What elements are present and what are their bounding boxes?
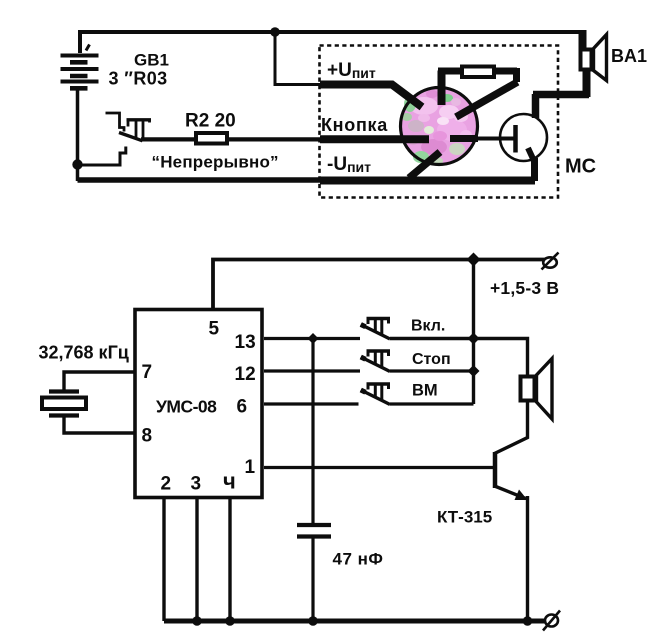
node junction emitter/rail: [523, 616, 533, 626]
svg-text:1: 1: [245, 457, 256, 478]
svg-text:32,768 кГц: 32,768 кГц: [39, 343, 129, 363]
wire -Upit branch diagonal into blob: [409, 152, 440, 178]
transistor of module MC: [450, 94, 547, 181]
svg-text:2: 2: [161, 474, 172, 495]
wire pin 6 row: [264, 402, 359, 405]
svg-text:Кнопка: Кнопка: [321, 115, 388, 135]
svg-text:8: 8: [142, 426, 153, 447]
wire top supply rail of bottom circuit: [213, 260, 545, 309]
wire pin 4 drop: [228, 499, 231, 621]
svg-text:“Непрерывно”: “Непрерывно”: [152, 153, 279, 172]
node junction pin4/rail: [225, 616, 235, 626]
resistor R2 20: [185, 111, 236, 144]
svg-text:BA1: BA1: [611, 46, 647, 66]
node junction capacitor/rail: [308, 616, 318, 626]
switch SA1 "Nepreryvno" continuous-mode switch: [77, 113, 279, 172]
wire capacitor branch: [311, 339, 314, 524]
node junction on top rail feeding +Upit: [270, 27, 280, 37]
capacitor 47 nF: [297, 525, 383, 621]
wire top rail from battery GB1 plus to speaker BA1: [80, 32, 582, 53]
svg-text:12: 12: [235, 364, 256, 385]
svg-text:13: 13: [235, 332, 256, 353]
wire Knopka thick segment into blob: [320, 135, 429, 143]
svg-text:+Uпит: +Uпит: [327, 60, 376, 81]
wire speaker BA1 connections: [533, 30, 589, 97]
speaker (dynamic head) of bottom circuit: [521, 359, 553, 420]
svg-text:ВМ: ВМ: [412, 382, 438, 400]
svg-text:3: 3: [191, 474, 202, 495]
wire +Upit feed drop from top rail: [275, 32, 320, 85]
wire pin 2 drop: [162, 499, 165, 621]
wire pin 1 row to transistor base: [264, 466, 493, 469]
svg-text:ч: ч: [223, 469, 236, 494]
svg-text:-Uпит: -Uпит: [327, 154, 371, 175]
wire +Upit thick segment into blob: [320, 85, 422, 108]
wire bottom ground rail: [164, 619, 546, 624]
node junction bus/Stop: [468, 365, 480, 377]
node battery junction dot: [72, 159, 82, 169]
button Vkl: [361, 318, 446, 340]
button VM: [361, 382, 438, 405]
node junction top rail: [467, 253, 481, 267]
wire bottom rail of top circuit (-Upit return): [78, 177, 321, 183]
button Stop: [361, 351, 451, 372]
wire switch to resistor R2: [141, 137, 196, 141]
svg-text:КТ-315: КТ-315: [437, 508, 492, 527]
wire -Upit thick rail inside module: [320, 177, 535, 185]
svg-text:5: 5: [209, 319, 220, 340]
wire VM row to bus: [390, 402, 474, 405]
transistor KT-315: [437, 452, 528, 621]
svg-text:Вкл.: Вкл.: [411, 318, 445, 335]
wire speaker to transistor collector: [495, 402, 528, 454]
speaker BA1: [581, 35, 648, 81]
svg-text:МС: МС: [565, 156, 596, 178]
IC UMS-08: [135, 310, 262, 498]
svg-text:УМС-08: УМС-08: [156, 397, 217, 417]
node junction pin3/rail: [192, 616, 202, 626]
chip-on-board blob (music chip die): [401, 88, 478, 166]
wire pin 3 drop: [195, 499, 198, 621]
svg-text:R2 20: R2 20: [185, 111, 236, 132]
resistor (chip) top loop in module: [438, 67, 518, 118]
wire Vkl row to speaker drop: [390, 339, 528, 377]
svg-text:6: 6: [237, 397, 248, 418]
dashed module boundary MC: [320, 46, 559, 198]
battery GB1: [61, 45, 169, 182]
svg-text:47 нФ: 47 нФ: [333, 550, 384, 569]
wire Stop row to bus: [390, 369, 474, 372]
node junction bus/Vkl: [468, 333, 480, 345]
wire vertical bus x=473: [472, 260, 475, 405]
svg-text:GB1: GB1: [134, 51, 169, 70]
svg-text:+1,5-3 В: +1,5-3 В: [490, 278, 559, 298]
svg-text:7: 7: [142, 362, 153, 383]
terminal ground bottom right: [543, 611, 560, 631]
terminal +1,5-3 V: [490, 253, 559, 299]
node junction pin13/capacitor: [308, 333, 319, 344]
svg-text:3 ″R03: 3 ″R03: [109, 69, 168, 89]
wire pin 12 row: [264, 369, 360, 372]
wire R2 to module (Knopka line): [227, 137, 320, 141]
wire pin 13 row: [264, 337, 360, 340]
svg-text:Стоп: Стоп: [412, 351, 451, 368]
crystal resonator 32768 Hz: [39, 343, 136, 434]
